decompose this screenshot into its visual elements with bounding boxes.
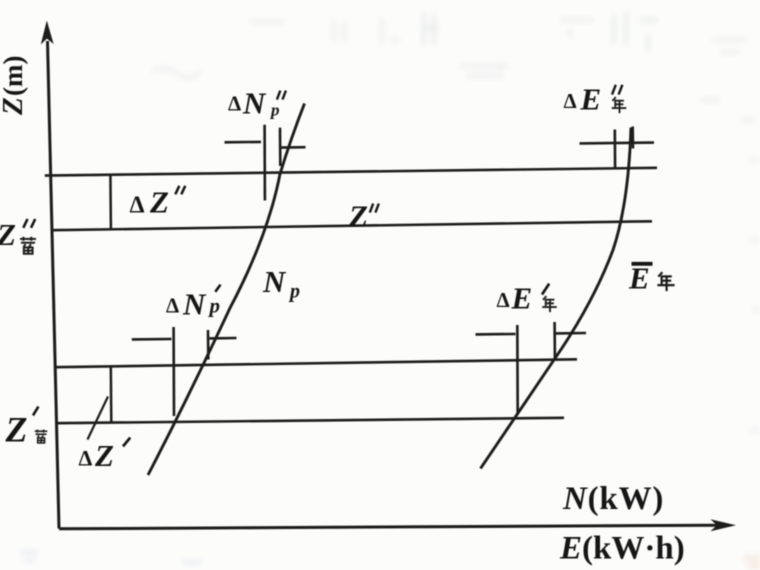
svg-text:E: E [628,261,650,296]
curve Np [148,104,305,476]
level line Z upper top (L1) [45,168,657,176]
tick for ΔZ lower band [110,367,113,423]
svg-text:N: N [262,264,287,299]
svg-text:Z: Z [0,97,29,116]
leader line ΔZ′ [88,397,109,440]
svg-text:E(kW·h): E(kW·h) [559,531,685,567]
svg-text:Δ: Δ [130,193,145,219]
measure ΔE′年 left dash [476,333,516,336]
measure ΔNp″ right dash [282,146,306,149]
svg-text:E: E [580,82,602,117]
measure ΔE″年 left tick [613,130,616,169]
measure ΔNp′ left dash [132,338,172,341]
measure ΔE′年 right tick [553,322,556,359]
x-axis [59,525,717,529]
svg-text:N: N [242,86,267,121]
level line Z lower bottom (L4) [56,418,564,423]
measure ΔE″年 right tick [631,127,634,149]
svg-text:N(kW): N(kW) [562,481,664,517]
svg-text:Δ: Δ [497,288,510,312]
svg-text:Z: Z [348,198,368,233]
level line Z upper bottom (L2) [52,221,652,230]
x-axis arrowhead [711,519,737,531]
svg-text:p: p [269,101,280,120]
measure ΔNp′ right dash [210,337,237,340]
measure ΔNp′ right tick [207,330,210,360]
svg-text:Z: Z [149,185,169,220]
measure ΔE′年 right dash [556,332,586,335]
svg-text:Z: Z [0,217,16,252]
level line Z lower top (L3) [55,359,577,367]
svg-text:Δ: Δ [166,294,179,318]
svg-text:(m): (m) [0,56,28,96]
svg-text:p: p [288,281,300,303]
measure ΔE′年 left tick [516,325,519,414]
svg-text:N: N [182,287,207,322]
y-axis [48,41,60,529]
curve E-year [481,128,632,469]
svg-text:p: p [208,294,221,318]
svg-text:Δ: Δ [79,446,93,471]
y-axis arrowhead [41,21,54,45]
measure ΔNp″ left dash [225,141,262,144]
svg-text:Δ: Δ [564,89,577,113]
svg-text:Δ: Δ [228,92,241,116]
svg-text:Z: Z [94,438,114,473]
measure ΔE″年 dash [580,141,655,144]
measure ΔNp′ left tick [172,327,175,416]
svg-text:Z: Z [5,410,28,450]
measure ΔNp″ right tick [279,128,282,166]
measure ΔNp″ left tick [263,125,266,201]
tick for ΔZ upper band [109,175,112,230]
svg-text:E: E [511,281,533,316]
